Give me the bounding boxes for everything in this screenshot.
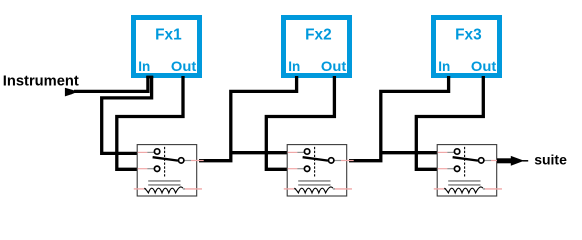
relay K3	[434, 145, 504, 196]
relay K3 body	[437, 145, 497, 196]
relay K2 bottom throw stub	[288, 168, 298, 170]
relay K1 common stub	[184, 160, 191, 162]
relay K1 armature bars	[148, 180, 180, 182]
wire: Fx2 Out to relay K2 bottom throw	[266, 76, 334, 169]
wire: relay K2 common to Fx3 In	[349, 76, 449, 161]
relay K1 bottom throw contact	[154, 166, 159, 171]
relay K2 common stub	[334, 160, 341, 162]
output arrow tail line	[523, 160, 529, 162]
wire: Fx3 Out to relay K3 bottom throw	[416, 76, 483, 169]
relay K2 long pink net line	[284, 188, 295, 190]
input arrow (Instrument)	[65, 88, 75, 97]
svg-text:In: In	[138, 59, 150, 74]
svg-text:Fx2: Fx2	[305, 27, 332, 44]
relay K2 common contact	[329, 158, 334, 163]
relay K1	[134, 145, 204, 196]
svg-text:Fx3: Fx3	[455, 27, 482, 44]
relay K3 actuator dashed link	[464, 147, 466, 177]
relay K2 armature bars	[298, 180, 330, 182]
relay K2 switch lever	[303, 157, 328, 160]
relay K1 common contact	[179, 158, 184, 163]
relay K3 common stub	[484, 160, 491, 162]
output arrowhead	[511, 156, 524, 166]
relay K1 body	[137, 145, 197, 196]
relay K3 top throw stub	[438, 151, 448, 153]
effect unit box Fx3	[434, 18, 500, 76]
relay K3 common contact	[479, 158, 484, 163]
relay K1 switch lever	[153, 157, 178, 160]
relay K3 bottom throw contact	[454, 166, 459, 171]
wire: Fx1 In to relay K1 top throw	[102, 76, 152, 153]
svg-text:Instrument: Instrument	[3, 73, 79, 90]
relay K1 top throw stub	[138, 151, 148, 153]
relay K2 bottom throw contact	[304, 166, 309, 171]
relay K1 bottom throw stub	[138, 168, 148, 170]
relay K3 switch lever	[453, 157, 478, 160]
output wire to suite	[497, 158, 512, 163]
relay K2 top throw contact	[304, 149, 309, 154]
wire: relay K1 common to Fx2 In	[199, 76, 297, 161]
svg-text:Out: Out	[471, 59, 497, 74]
effect unit box Fx2	[284, 18, 350, 76]
relay K1 top throw contact	[154, 149, 159, 154]
svg-text:suite: suite	[534, 152, 567, 168]
relay K2 actuator dashed link	[314, 147, 316, 177]
wire: branch to relay K2 top throw	[231, 151, 288, 154]
wire: Fx1 Out to relay K1 bottom throw	[117, 76, 183, 169]
svg-text:Out: Out	[171, 59, 197, 74]
relay K3 bottom throw stub	[438, 168, 448, 170]
relay K1 coil	[144, 187, 183, 193]
svg-text:Fx1: Fx1	[155, 27, 182, 44]
relay K3 long pink net line	[434, 188, 445, 190]
pin notch at Fx1 In	[146, 76, 153, 79]
svg-text:Out: Out	[321, 59, 347, 74]
relay K1 actuator dashed link	[164, 147, 166, 177]
relay K2 top throw stub	[288, 151, 298, 153]
relay K3 armature bars	[448, 180, 480, 182]
relay K3 top throw contact	[454, 149, 459, 154]
wire: branch to relay K3 top throw	[381, 151, 438, 154]
relay K2 body	[287, 145, 347, 196]
wire: instrument feed to Fx1 In	[74, 76, 148, 91]
svg-text:In: In	[288, 59, 300, 74]
relay K2	[284, 145, 354, 196]
svg-text:In: In	[438, 59, 450, 74]
relay K2 coil	[294, 187, 333, 193]
relay K1 long pink net line	[134, 188, 145, 190]
relay K3 coil	[444, 187, 483, 193]
effect unit box Fx1	[134, 18, 200, 76]
